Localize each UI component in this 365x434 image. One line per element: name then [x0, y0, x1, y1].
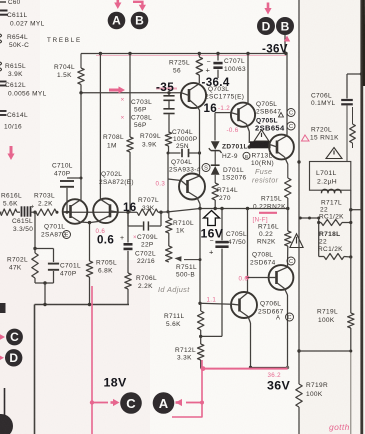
- resistor R711L: [164, 303, 204, 336]
- svg-text:-35: -35: [156, 80, 174, 94]
- transistor Q706L: [231, 292, 257, 368]
- wire Q706 base: [200, 302, 232, 305]
- resistor R707L: [137, 197, 159, 215]
- diode D701L: [211, 165, 247, 183]
- resistor R704L: [54, 54, 84, 94]
- resistor R712L: [175, 336, 204, 368]
- annotation fuse resistor handwritten: [252, 167, 279, 185]
- capacitor C702L electrolytic: [120, 212, 156, 273]
- resistor R615L stub: [0, 62, 26, 78]
- wire Q704 emitter chain down: [198, 209, 201, 305]
- label TREBLE: [47, 37, 82, 44]
- resistor R702L: [7, 249, 38, 284]
- capacitor C709L: [128, 212, 161, 248]
- svg-text:18V: 18V: [104, 376, 127, 390]
- wire output bus vertical: [297, 0, 300, 434]
- resistor R654L stub: [0, 34, 29, 49]
- resistor R725L: [169, 57, 203, 75]
- capacitor C706L: [311, 74, 362, 162]
- label Q702L: [99, 171, 134, 186]
- resistor R719R: [296, 382, 328, 407]
- pink arrow right at -35 wire: [109, 86, 125, 93]
- transistor Q705L lower 2SB654 driver: [269, 54, 294, 179]
- svg-text:-36V: -36V: [262, 43, 288, 56]
- capacitor C703L: [131, 93, 175, 114]
- wire input base: [0, 211, 2, 213]
- label Q701L: [41, 224, 71, 239]
- paper texture: [0, 0, 1, 1]
- label -36.4: [202, 76, 230, 89]
- svg-text:0.6: 0.6: [97, 234, 114, 247]
- box L701 assembly outline: [310, 162, 351, 191]
- pink arrow into D left: [0, 354, 4, 361]
- capacitor C704L: [168, 129, 201, 157]
- zener diode ZD701L: [209, 141, 222, 165]
- wire Q704 base chain: [166, 152, 181, 214]
- label -35: [156, 80, 174, 94]
- capacitor C612L stub: [0, 82, 47, 98]
- pink rail vertical 18V: [172, 360, 204, 418]
- node C bottom: [120, 392, 142, 414]
- fuse resistor R713L: [249, 141, 274, 167]
- pink handwriting bottom right: [329, 422, 350, 432]
- warning triangle fuse resistor: [254, 130, 269, 141]
- black blob bottom left: [0, 388, 13, 434]
- wire 16V output rail: [63, 207, 290, 214]
- resistor R719L: [317, 257, 354, 351]
- label C609 partial top: [0, 0, 21, 6]
- wire R719L to bus: [299, 350, 352, 434]
- pink arrow into A: [114, 0, 121, 9]
- warning triangle R716: [290, 234, 303, 248]
- annotation Id Adjust: [158, 285, 190, 294]
- pink underline -35: [156, 88, 177, 90]
- capacitor C615L: [12, 204, 37, 234]
- potentiometer R751L: [166, 246, 200, 279]
- pink arrow elbow into B: [133, 2, 146, 11]
- pink arrow into A bottom: [176, 399, 203, 406]
- label Q703L: [205, 86, 244, 101]
- node A top: [108, 12, 126, 30]
- pink arrow into C left: [0, 333, 5, 340]
- wire -36V drop from B: [284, 35, 287, 55]
- transistor Q701L: [63, 199, 90, 224]
- resistor R720L: [310, 107, 355, 148]
- wire C705 return elbow: [199, 335, 222, 338]
- node D top: [257, 17, 275, 35]
- svg-text:36V: 36V: [267, 379, 290, 393]
- pink bar under R715 label: [259, 212, 277, 214]
- pink annotation values: [96, 105, 282, 379]
- wire R702 C701 top: [33, 212, 53, 250]
- node A bottom: [153, 392, 175, 414]
- svg-text:16: 16: [204, 102, 218, 115]
- resistor R706L: [125, 273, 157, 305]
- wire R702 C701 bottom: [35, 281, 54, 304]
- label Q705L 2SB654 bold: [255, 118, 295, 133]
- wire top -35V rail: [81, 52, 288, 56]
- pink 36V rail: [201, 366, 288, 371]
- label Q708L: [250, 252, 295, 267]
- capacitor C611L stub: [0, 11, 45, 28]
- wire Q703 emitter to Q704 collector: [199, 110, 201, 176]
- pink tick marks right of Q705: [302, 135, 310, 141]
- transistor Q704L: [169, 159, 210, 209]
- svg-text:16V: 16V: [201, 227, 224, 241]
- wire network left leg: [299, 217, 320, 257]
- label 18V: [104, 376, 127, 390]
- capacitor C710L: [52, 93, 83, 214]
- resistor R710L: [166, 212, 194, 246]
- transistor Q705L upper 2SB647: [231, 54, 255, 144]
- black box left edge: [0, 303, 6, 313]
- transistor Q702L: [88, 199, 118, 225]
- capacitor C708L: [131, 109, 175, 132]
- pink x marks: [121, 97, 125, 122]
- resistor R616L: [0, 193, 22, 216]
- wire -35 node horizontal: [79, 91, 181, 94]
- node C left: [6, 329, 23, 346]
- resistor R709L: [140, 132, 172, 153]
- node B right: [276, 17, 294, 35]
- resistor R715L: [253, 178, 291, 211]
- resistor R714L: [212, 183, 238, 209]
- pink arrow down left edge: [7, 146, 14, 160]
- resistor R705L: [86, 223, 117, 305]
- capacitor C701L: [48, 249, 81, 284]
- wire ground rail bottom left: [35, 303, 130, 434]
- pink arrow into D: [264, 3, 271, 15]
- wire Q705 base / 16 node: [215, 113, 231, 141]
- label Q706L: [258, 301, 294, 322]
- svg-text:-36.4: -36.4: [202, 76, 230, 89]
- wire network to bus right: [349, 190, 362, 257]
- node B top: [131, 12, 149, 30]
- capacitor C614L stub: [0, 111, 28, 131]
- pink rail vertical left: [90, 286, 94, 434]
- label 0.6: [97, 234, 114, 247]
- label 16 at Q702 base: [123, 201, 137, 214]
- label -36V: [262, 43, 288, 56]
- label 36V: [267, 379, 290, 393]
- inductor L701L: [316, 170, 341, 193]
- label 16 at Q705 base: [204, 102, 218, 115]
- wire Q702 collector: [99, 54, 101, 200]
- resistor R708L: [103, 54, 133, 212]
- resistor R716L: [257, 209, 291, 268]
- wire right supply bus: [360, 0, 364, 434]
- warning triangle L701: [326, 148, 342, 159]
- svg-text:16: 16: [123, 201, 137, 214]
- capacitor C707L: [206, 54, 247, 79]
- wire 36V node: [249, 366, 289, 369]
- wire Q706 collector Q708 base: [246, 209, 269, 293]
- label 16V with arrow: [201, 211, 224, 241]
- resistor R717L: [317, 200, 352, 226]
- pink arrow up under B: [284, 36, 290, 42]
- node D left: [5, 349, 22, 366]
- resistor R718L: [318, 231, 352, 260]
- pink arrow into C bottom: [92, 399, 120, 406]
- transistor Q708L: [269, 265, 294, 367]
- resistor R703L: [34, 193, 59, 216]
- capacitor C705L electrolytic: [209, 209, 247, 337]
- transistor Q703L: [181, 54, 206, 111]
